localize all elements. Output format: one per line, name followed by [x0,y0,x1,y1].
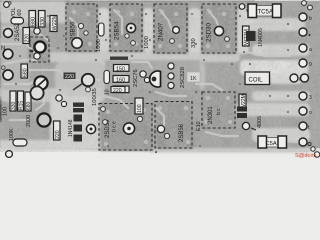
terminal pad P1 [299,13,312,22]
pad 3 in T2 [131,41,136,46]
resistor W22M right of T4 [243,26,251,46]
resistor 100K label [9,128,15,141]
diode 1N4005 [246,28,264,47]
svg-text:4005: 4005 [257,116,263,128]
transistor label 2SD30 in B1 [105,119,111,138]
transistor Q3 can [3,70,13,80]
wire [156,92,186,96]
svg-text:3: 3 [309,95,312,101]
wire [240,110,298,111]
copper trace lines [2,10,298,142]
svg-text:330: 330 [191,38,197,48]
resistor cluster bottom-left r3 [25,92,32,111]
svg-text:100/35: 100/35 [92,88,98,106]
pad c in T1 [72,38,82,48]
darker board patches [28,3,237,151]
pad b of 2SC828 [168,73,174,79]
svg-text:330: 330 [40,17,46,26]
pad left edge B1 upper [101,107,106,112]
node O [1,66,6,72]
corner hole top-right [302,1,313,10]
pad mid-left col a [56,95,62,101]
terminal pad P7 [299,107,312,116]
resistor 220 above B1 [111,87,125,94]
svg-text:680: 680 [23,68,29,77]
transistor Q2 can [3,49,13,59]
resistor 160 [17,9,23,19]
diode D1 [74,115,83,122]
svg-text:6: 6 [299,77,302,83]
pad e of 2SC828 [168,63,174,69]
resistor cluster bottom-left r2 [18,91,25,111]
svg-text:b c: b c [216,108,222,115]
wire [208,10,220,30]
svg-text:TC5A: TC5A [258,10,273,16]
terminal pad P3 [299,44,312,53]
terminal pad P8 [299,122,310,131]
svg-text:220: 220 [113,88,122,94]
wire [256,134,298,142]
svg-text:COIL: COIL [249,78,264,84]
copper traces (light) [0,1,310,153]
resistor 1K faint [187,72,200,82]
diode dark bottom-right [237,107,263,129]
transistor label 2SB54 in T2 [114,21,121,40]
wire [4,28,48,40]
svg-text:2000: 2000 [26,115,32,127]
pad ring center b [144,77,149,82]
wire [132,62,152,68]
wire [206,132,238,136]
svg-text:b: b [309,16,312,22]
IF transformer outline T3 [154,4,187,53]
IF transformer outline T4 [202,4,236,53]
pad 2 in T4 [225,37,230,42]
svg-text:2SA52: 2SA52 [15,22,21,41]
electrolytic capacitor big bottom-left [30,86,43,99]
pad in T2 [126,23,135,32]
board edge marks [0,1,255,123]
board substrate [0,0,320,159]
transformer outline B2 [155,102,192,149]
transistor label 2SC828 [180,67,186,88]
pad col mid-left a [34,28,40,34]
svg-text:W22M: W22M [52,14,58,30]
terminal pad P6 [299,92,312,101]
wire [246,52,290,56]
trimmer outline L [30,37,49,62]
transistor label 2SD30 in T4 [206,23,213,42]
terminal pad P2 [299,28,311,36]
pad in T4 [214,26,223,35]
pad in T3 [173,27,180,34]
svg-text:100: 100 [3,107,9,116]
svg-text:2SB54: 2SB54 [114,21,121,40]
resistor 150 horizontal [114,65,130,73]
diode pair top [73,103,84,113]
electrolytic capacitor 2 bottom-left [37,113,50,126]
wire [36,96,44,110]
mounting hole top-left [4,2,12,8]
resistor 680 [29,11,37,28]
svg-text:150: 150 [116,67,125,73]
capacitor E10 label [196,121,202,131]
wire [70,18,78,40]
svg-text:10: 10 [105,89,111,95]
IF transformer outline T1 [66,4,97,51]
transistor label 2SC [133,69,139,87]
pad a B2 [157,125,164,132]
transformer core pads [72,10,232,146]
resistor 220 dark center-left [64,73,76,81]
pad mid-left col b [61,101,66,106]
svg-text:E10: E10 [196,121,202,131]
wire [4,76,40,84]
volume control label VOL [11,7,17,19]
resistor cluster bottom-left r1 [10,91,17,111]
via junction dots [15,13,289,153]
wire [250,20,298,24]
pad left edge B1 lower [103,120,108,125]
transistor label 2SB56 in B2 [179,123,185,142]
pad center B1 [123,123,134,134]
screw head [34,76,47,89]
pad ring bottom-left [86,124,95,133]
capacitor pill bottom-left [13,139,27,146]
svg-text:160: 160 [116,78,125,84]
svg-text:2SB56: 2SB56 [70,21,77,40]
pad 2 in T3 [170,39,175,44]
svg-text:2SC76: 2SC76 [133,69,139,87]
resistor 220 horizontal [113,86,129,94]
diode label 1N4148 [68,119,74,137]
wire [30,70,100,80]
watermark red [295,153,317,159]
svg-text:2SB56: 2SB56 [179,123,185,142]
pad w right of T4 [239,4,250,14]
wire [2,44,34,52]
capacitor 1000 between T1 T2 [96,23,104,52]
resistor 160 horizontal [113,76,129,84]
svg-text:C5A: C5A [266,141,277,147]
pad bottom-left corner [6,151,13,158]
svg-text:220: 220 [55,130,61,139]
svg-text:1000: 1000 [96,39,102,52]
transistor label 2SB56 in T1 [70,21,77,40]
terminal pad P4 [299,59,312,68]
resistor 330 [39,11,47,28]
wire [104,96,128,108]
wire [86,106,94,124]
terminal pad P9 [299,138,311,146]
coil L1 [245,72,270,85]
resistor W22M left [50,14,58,31]
capacitor 1000 between T2 T3 [144,36,150,49]
net label 100 left edge [3,107,9,116]
svg-text:9: 9 [309,62,312,68]
resistor 330 between T3 T4 [191,38,197,48]
svg-text:680: 680 [31,17,37,26]
svg-text:2N301: 2N301 [208,106,214,124]
svg-text:330: 330 [11,101,17,110]
pad bottom-right [242,122,256,130]
transformer outline B3 [202,92,235,128]
svg-text:680: 680 [26,101,32,110]
resistor DB1 [21,64,29,78]
capacitor pill center [104,71,111,96]
svg-text:S@doita: S@doita [295,153,317,159]
wire [254,94,298,96]
pad col mid-left b [34,53,40,59]
pad b in T1 [84,31,88,35]
svg-text:o: o [309,110,312,116]
dark bar under T2 [110,57,128,60]
capacitor 2000 label [26,115,32,127]
fuse holder C5A bottom [258,136,287,148]
svg-text:b c e: b c e [112,121,118,132]
pad ring center a [140,71,146,77]
svg-text:100: 100 [137,104,143,113]
svg-text:R15: R15 [19,101,25,110]
IF transformer outline T2 [110,4,142,51]
scan grain [0,0,320,152]
svg-text:1000: 1000 [144,36,150,49]
terminal pad P5 double [290,74,309,83]
transistor outline B1 [99,104,152,151]
transistor label 2N301 in B3 [208,106,214,124]
wire [160,10,172,30]
fuse holder TC5A top-right [248,4,281,18]
corner hole bottom-right [311,147,320,158]
pad c of 2SC828 [168,82,174,88]
wire [4,60,36,64]
pin letters bce in B1 [112,121,118,132]
pin letters bce in B3 [216,108,222,115]
transistor 2SC828 outline [150,71,161,87]
svg-text:2SD30: 2SD30 [206,23,213,42]
transistor label 2SA [15,22,21,41]
resistor 220 bottom mid-left [54,121,62,140]
svg-text:1K: 1K [190,76,197,82]
transistor label 2N407 in T3 [158,22,165,41]
svg-text:2SC828: 2SC828 [180,67,186,88]
wire [196,84,222,90]
wire [60,58,104,64]
pad e in T1 [78,23,83,28]
svg-text:220: 220 [65,74,74,80]
wire [114,10,122,34]
node N [1,46,5,52]
wire [10,119,28,121]
svg-text:1N4005: 1N4005 [258,28,264,47]
pad 2 B1 [137,116,142,121]
svg-text:a: a [309,47,312,53]
svg-text:2N407: 2N407 [158,22,165,41]
resistor 100 above B1 [135,98,143,114]
trimmer rotor [31,41,46,52]
pad b B2 [164,133,169,138]
resistor W22M bottom-right [239,94,247,110]
diode D2 [74,125,83,132]
wire [156,108,164,128]
transistor Q1 can [4,29,13,38]
pad 2 in T2 [125,34,129,38]
capacitor pill top-left [11,18,24,25]
diode D3 [74,135,83,142]
svg-text:1N4148: 1N4148 [68,119,74,137]
resistor 220 left [23,28,31,44]
electrolytic capacitor 100/35 [73,74,98,106]
